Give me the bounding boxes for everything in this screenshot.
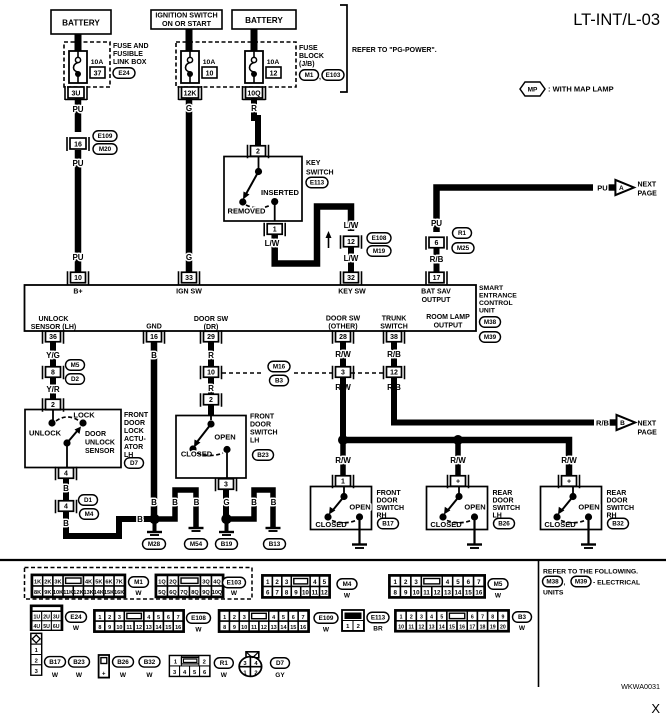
svg-text:10: 10 — [241, 625, 247, 631]
svg-text:W: W — [231, 590, 238, 597]
svg-text:14: 14 — [156, 625, 163, 631]
svg-text:M25: M25 — [457, 245, 470, 252]
svg-text:12K: 12K — [73, 590, 83, 596]
svg-text:PAGE: PAGE — [638, 430, 658, 437]
svg-text:ACTU-: ACTU- — [124, 436, 146, 443]
svg-text:38: 38 — [390, 334, 398, 341]
svg-text:B23: B23 — [73, 659, 85, 666]
svg-text:E108: E108 — [372, 235, 387, 242]
svg-text:OPEN: OPEN — [214, 433, 235, 442]
svg-text:10: 10 — [398, 624, 404, 630]
svg-text:PU: PU — [72, 105, 83, 114]
svg-text:LT-INT/L-03: LT-INT/L-03 — [573, 11, 660, 29]
svg-text:DOOR: DOOR — [377, 498, 398, 505]
svg-text:2: 2 — [51, 402, 55, 409]
svg-text:4: 4 — [64, 504, 68, 511]
svg-text:33: 33 — [185, 275, 193, 282]
svg-text:B32: B32 — [144, 659, 156, 666]
svg-text:D7: D7 — [276, 660, 285, 667]
svg-text:FRONT: FRONT — [124, 412, 149, 419]
svg-text:1: 1 — [266, 579, 270, 586]
svg-text:16K: 16K — [114, 590, 124, 596]
svg-text:M5: M5 — [71, 362, 80, 369]
svg-text:NEXT: NEXT — [638, 182, 657, 189]
svg-text:12: 12 — [347, 239, 355, 246]
svg-text:W: W — [120, 672, 127, 679]
svg-text:11: 11 — [251, 625, 257, 631]
svg-text:W: W — [76, 672, 83, 679]
svg-text:E103: E103 — [227, 580, 242, 587]
svg-text:28: 28 — [339, 334, 347, 341]
svg-text:KEY: KEY — [306, 160, 321, 167]
svg-text:UNLOCK: UNLOCK — [85, 440, 115, 447]
svg-text:FUSIBLE: FUSIBLE — [113, 51, 143, 58]
svg-text:2: 2 — [209, 397, 213, 404]
svg-text:B26: B26 — [498, 521, 510, 528]
svg-text:Y/R: Y/R — [46, 385, 60, 394]
svg-text:FUSE AND: FUSE AND — [113, 43, 149, 50]
svg-text:12: 12 — [434, 590, 441, 597]
svg-text:R: R — [208, 384, 214, 393]
svg-text:8: 8 — [98, 625, 101, 631]
svg-text:BLOCK: BLOCK — [299, 53, 324, 60]
svg-text:LOCK: LOCK — [73, 411, 95, 420]
svg-text:SWITCH: SWITCH — [250, 430, 278, 437]
svg-text:R/W: R/W — [561, 456, 577, 465]
svg-text:37: 37 — [94, 71, 102, 78]
svg-text:11: 11 — [126, 625, 132, 631]
svg-text:16: 16 — [459, 624, 465, 630]
svg-text:A: A — [619, 185, 624, 192]
svg-text:12: 12 — [136, 625, 142, 631]
svg-text:R/B: R/B — [430, 255, 444, 264]
svg-text:R1: R1 — [220, 660, 229, 667]
svg-text:B: B — [63, 519, 69, 528]
svg-text:10A: 10A — [267, 59, 280, 66]
svg-text:10: 10 — [302, 590, 309, 597]
svg-text:16: 16 — [175, 625, 181, 631]
svg-text:L/W: L/W — [344, 254, 359, 263]
svg-text:ROOM LAMP: ROOM LAMP — [426, 314, 470, 321]
svg-text:W: W — [135, 590, 142, 597]
svg-text:(OTHER): (OTHER) — [328, 324, 357, 331]
svg-text:B23: B23 — [257, 452, 269, 459]
svg-text:1: 1 — [393, 579, 397, 586]
svg-text:10: 10 — [206, 71, 214, 78]
svg-text:B19: B19 — [221, 541, 233, 548]
svg-text:D7: D7 — [130, 460, 139, 467]
svg-text:14: 14 — [439, 624, 445, 630]
svg-text:G: G — [223, 498, 229, 507]
svg-text:LH: LH — [250, 438, 259, 445]
svg-text:CLOSED: CLOSED — [544, 520, 576, 529]
svg-text:1Q: 1Q — [158, 580, 166, 586]
svg-text:9K: 9K — [44, 590, 51, 596]
svg-text:DOOR: DOOR — [493, 498, 514, 505]
svg-text:E24: E24 — [70, 614, 82, 621]
svg-text:12: 12 — [419, 624, 425, 630]
svg-text:2: 2 — [275, 579, 279, 586]
svg-text:B26: B26 — [117, 659, 129, 666]
svg-text:W: W — [221, 672, 228, 679]
svg-text:B: B — [620, 420, 625, 427]
svg-text:12K: 12K — [184, 90, 197, 97]
svg-text:8K: 8K — [34, 590, 41, 596]
svg-text:D2: D2 — [71, 376, 80, 383]
svg-text:R: R — [251, 104, 257, 113]
svg-text:8: 8 — [393, 590, 397, 597]
svg-text:R1: R1 — [458, 230, 467, 237]
svg-text:BAT SAV: BAT SAV — [421, 289, 451, 296]
svg-text:CONTROL: CONTROL — [479, 300, 513, 307]
svg-text:DOOR SW: DOOR SW — [194, 316, 229, 323]
svg-text:16: 16 — [150, 334, 158, 341]
svg-text:36: 36 — [49, 334, 57, 341]
svg-text:10: 10 — [116, 625, 122, 631]
svg-text:7: 7 — [275, 590, 279, 597]
svg-text:15: 15 — [290, 625, 296, 631]
svg-text:2: 2 — [357, 624, 360, 630]
svg-text:5Q: 5Q — [158, 590, 166, 596]
svg-text:3: 3 — [224, 482, 228, 489]
svg-text:14: 14 — [280, 625, 287, 631]
svg-text:M16: M16 — [273, 364, 286, 371]
svg-text:BATTERY: BATTERY — [245, 16, 283, 25]
svg-text:9: 9 — [404, 590, 408, 597]
svg-text:4Q: 4Q — [213, 580, 221, 586]
svg-text:9: 9 — [233, 625, 236, 631]
svg-text:8: 8 — [51, 370, 55, 377]
svg-text:E109: E109 — [319, 615, 334, 622]
svg-text:E24: E24 — [118, 70, 130, 77]
svg-text:3U: 3U — [72, 90, 81, 97]
svg-text:5: 5 — [282, 615, 285, 621]
svg-text:BR: BR — [373, 626, 383, 633]
svg-text:4: 4 — [430, 615, 433, 621]
svg-text:B: B — [172, 498, 178, 507]
svg-text:6: 6 — [266, 590, 270, 597]
svg-text:SWITCH: SWITCH — [493, 505, 521, 512]
svg-text:3: 3 — [414, 579, 418, 586]
svg-text:B3: B3 — [275, 378, 284, 385]
svg-text:13: 13 — [444, 590, 451, 597]
svg-text:OPEN: OPEN — [578, 503, 599, 512]
svg-text:11K: 11K — [63, 590, 73, 596]
svg-text:DOOR: DOOR — [250, 422, 271, 429]
svg-text:M39: M39 — [484, 334, 497, 341]
svg-text:FUSE: FUSE — [299, 45, 318, 52]
svg-text:+: + — [567, 479, 571, 486]
svg-text:DOOR SW: DOOR SW — [326, 316, 361, 323]
svg-text:B+: B+ — [73, 289, 82, 296]
svg-text:B: B — [251, 498, 257, 507]
svg-text:10A: 10A — [203, 59, 216, 66]
svg-text:CLOSED: CLOSED — [315, 520, 347, 529]
svg-text:INSERTED: INSERTED — [261, 188, 300, 197]
svg-text:2: 2 — [254, 671, 257, 677]
svg-text:11: 11 — [423, 590, 430, 597]
svg-text:B17: B17 — [49, 659, 61, 666]
svg-text:5: 5 — [440, 615, 443, 621]
svg-text:M28: M28 — [148, 541, 161, 548]
svg-text:OUTPUT: OUTPUT — [422, 297, 452, 304]
svg-text:SWITCH: SWITCH — [380, 324, 408, 331]
svg-text:E103: E103 — [326, 72, 341, 79]
svg-text:4U: 4U — [34, 624, 41, 630]
svg-text:8: 8 — [285, 590, 289, 597]
svg-text:9: 9 — [108, 625, 111, 631]
svg-text:4: 4 — [313, 579, 317, 586]
svg-text:M38: M38 — [484, 319, 497, 326]
svg-text:9Q: 9Q — [202, 590, 210, 596]
svg-text:1K: 1K — [34, 580, 41, 586]
svg-text:2: 2 — [410, 615, 413, 621]
svg-text:6: 6 — [471, 615, 474, 621]
svg-text:9: 9 — [294, 590, 298, 597]
svg-text:,: , — [564, 580, 566, 587]
svg-text:CLOSED: CLOSED — [430, 520, 462, 529]
svg-text:SMART: SMART — [479, 285, 504, 292]
svg-text:L/W: L/W — [344, 221, 359, 230]
svg-text:32: 32 — [347, 275, 355, 282]
svg-text:5: 5 — [456, 579, 460, 586]
svg-text:SWITCH: SWITCH — [306, 170, 334, 177]
svg-text:6U: 6U — [53, 624, 60, 630]
svg-text:7: 7 — [477, 579, 481, 586]
svg-text:15K: 15K — [104, 590, 114, 596]
svg-text:4K: 4K — [85, 580, 92, 586]
svg-text:GND: GND — [146, 324, 162, 331]
svg-text:- ELECTRICAL: - ELECTRICAL — [593, 580, 640, 587]
svg-text:DOOR: DOOR — [124, 420, 145, 427]
svg-text:OUTPUT: OUTPUT — [434, 323, 464, 330]
svg-text:SWITCH: SWITCH — [607, 505, 635, 512]
svg-text:R/W: R/W — [450, 456, 466, 465]
svg-text:12: 12 — [390, 370, 398, 377]
svg-text:PU: PU — [72, 159, 83, 168]
svg-text:2: 2 — [233, 615, 236, 621]
svg-text:13: 13 — [429, 624, 435, 630]
svg-text:19: 19 — [490, 624, 496, 630]
svg-text:PAGE: PAGE — [638, 191, 658, 198]
svg-text:ENTRANCE: ENTRANCE — [479, 293, 517, 300]
svg-text:+: + — [456, 479, 460, 486]
svg-text:G: G — [186, 104, 192, 113]
svg-text:REMOVED: REMOVED — [228, 207, 267, 216]
svg-text:DOOR: DOOR — [85, 431, 106, 438]
svg-text:SENSOR (LH): SENSOR (LH) — [31, 324, 77, 331]
svg-text:B: B — [63, 484, 69, 493]
svg-text:12: 12 — [321, 590, 328, 597]
svg-text:SENSOR: SENSOR — [85, 448, 115, 455]
svg-text:CLOSED: CLOSED — [181, 450, 213, 459]
svg-text:6K: 6K — [105, 580, 112, 586]
svg-text:2: 2 — [256, 149, 260, 156]
svg-text:2Q: 2Q — [169, 580, 177, 586]
svg-text:14: 14 — [454, 590, 461, 597]
svg-text:4: 4 — [64, 471, 68, 478]
svg-text:3: 3 — [243, 615, 246, 621]
svg-text:3K: 3K — [54, 580, 61, 586]
svg-text:M54: M54 — [190, 541, 203, 548]
svg-text:1: 1 — [273, 227, 277, 234]
svg-text:X: X — [651, 701, 660, 716]
svg-text:6: 6 — [467, 579, 471, 586]
svg-text:15: 15 — [165, 625, 171, 631]
svg-text:7K: 7K — [116, 580, 123, 586]
svg-text:UNIT: UNIT — [479, 308, 496, 315]
svg-text:9: 9 — [501, 615, 504, 621]
svg-text:LINK BOX: LINK BOX — [113, 59, 147, 66]
svg-text:8: 8 — [223, 625, 226, 631]
svg-text:5: 5 — [157, 615, 160, 621]
svg-text:12: 12 — [261, 625, 267, 631]
svg-text:UNITS: UNITS — [543, 590, 564, 597]
svg-text:PU: PU — [597, 184, 607, 193]
svg-text:B32: B32 — [612, 521, 624, 528]
svg-text:(DR): (DR) — [204, 324, 219, 331]
svg-text:2: 2 — [35, 659, 38, 665]
svg-text:10: 10 — [413, 590, 420, 597]
svg-text:M5: M5 — [494, 581, 503, 588]
svg-text:16: 16 — [300, 625, 306, 631]
svg-text:,: , — [319, 74, 321, 81]
svg-text:6: 6 — [435, 240, 439, 247]
svg-text:3: 3 — [118, 615, 121, 621]
svg-text:KEY SW: KEY SW — [338, 289, 366, 296]
svg-text:REFER TO "PG-POWER".: REFER TO "PG-POWER". — [352, 47, 437, 54]
svg-text:G: G — [186, 253, 192, 262]
svg-text:W: W — [519, 625, 526, 632]
svg-text:B3: B3 — [518, 614, 527, 621]
svg-text:E108: E108 — [191, 615, 206, 622]
svg-text:3U: 3U — [53, 615, 60, 621]
svg-text:R/B: R/B — [387, 350, 401, 359]
svg-text:M1: M1 — [134, 579, 143, 586]
svg-text:3: 3 — [420, 615, 423, 621]
svg-text:10: 10 — [207, 370, 215, 377]
svg-text:7Q: 7Q — [180, 590, 188, 596]
svg-text:10K: 10K — [53, 590, 63, 596]
svg-text:1: 1 — [400, 615, 403, 621]
svg-text:OPEN: OPEN — [464, 503, 485, 512]
svg-text:NEXT: NEXT — [638, 421, 657, 428]
svg-text:B: B — [137, 515, 143, 524]
svg-text:E113: E113 — [310, 180, 325, 187]
svg-text:REAR: REAR — [493, 490, 513, 497]
svg-text:E113: E113 — [371, 615, 386, 622]
svg-text:SWITCH: SWITCH — [377, 505, 405, 512]
svg-text:13K: 13K — [83, 590, 93, 596]
svg-text:13: 13 — [271, 625, 277, 631]
svg-text:B: B — [271, 498, 277, 507]
svg-text:UNLOCK: UNLOCK — [39, 316, 69, 323]
svg-text:GY: GY — [275, 672, 285, 679]
svg-text:W: W — [495, 593, 502, 600]
svg-text:B17: B17 — [382, 521, 394, 528]
svg-text:2U: 2U — [43, 615, 50, 621]
svg-text:Y/G: Y/G — [46, 351, 60, 360]
svg-text:B: B — [151, 351, 157, 360]
svg-text:1U: 1U — [34, 615, 41, 621]
svg-text:W: W — [344, 593, 351, 600]
svg-text:MP: MP — [528, 87, 538, 94]
svg-text:M1: M1 — [305, 72, 314, 79]
svg-text:10: 10 — [74, 275, 82, 282]
svg-text:3Q: 3Q — [202, 580, 210, 586]
svg-text:2: 2 — [108, 615, 111, 621]
svg-text:3: 3 — [341, 370, 345, 377]
svg-text:PU: PU — [431, 219, 442, 228]
svg-text:20: 20 — [500, 624, 506, 630]
svg-text:UNLOCK: UNLOCK — [29, 429, 62, 438]
svg-text:15: 15 — [465, 590, 472, 597]
svg-text:7: 7 — [481, 615, 484, 621]
svg-text:2: 2 — [203, 660, 206, 666]
svg-text:16: 16 — [475, 590, 482, 597]
svg-text:13: 13 — [146, 625, 152, 631]
svg-text:D1: D1 — [84, 497, 93, 504]
svg-text:B13: B13 — [269, 541, 281, 548]
svg-text:5K: 5K — [95, 580, 102, 586]
svg-text:E109: E109 — [98, 133, 113, 140]
svg-text:7: 7 — [177, 615, 180, 621]
svg-text:17: 17 — [469, 624, 475, 630]
svg-text:ATOR: ATOR — [124, 444, 143, 451]
svg-text:WKWA0031: WKWA0031 — [621, 682, 660, 691]
svg-text:+: + — [102, 672, 106, 678]
svg-text:1: 1 — [223, 615, 226, 621]
svg-text:1: 1 — [98, 615, 101, 621]
svg-text:REAR: REAR — [607, 490, 627, 497]
svg-text:W: W — [195, 627, 202, 634]
svg-text:6: 6 — [167, 615, 170, 621]
svg-text:OPEN: OPEN — [349, 503, 370, 512]
svg-text:TRUNK: TRUNK — [382, 316, 407, 323]
svg-text:REFER TO THE FOLLOWING.: REFER TO THE FOLLOWING. — [543, 569, 638, 576]
svg-text:L/W: L/W — [265, 239, 280, 248]
svg-text:ON OR START: ON OR START — [162, 19, 212, 28]
svg-text:18: 18 — [480, 624, 486, 630]
svg-text:1: 1 — [341, 479, 345, 486]
svg-text:M4: M4 — [85, 511, 94, 518]
svg-text:16: 16 — [74, 141, 82, 148]
svg-text:R: R — [208, 351, 214, 360]
svg-text:PU: PU — [72, 253, 83, 262]
svg-text:7: 7 — [302, 615, 305, 621]
svg-text:DOOR: DOOR — [607, 498, 628, 505]
svg-text:15: 15 — [449, 624, 455, 630]
svg-text:M4: M4 — [343, 581, 352, 588]
svg-text:M19: M19 — [373, 248, 386, 255]
svg-text:29: 29 — [207, 334, 215, 341]
svg-text:10Q: 10Q — [212, 590, 223, 596]
svg-text:B: B — [151, 498, 157, 507]
svg-text:5U: 5U — [43, 624, 50, 630]
svg-text:M39: M39 — [575, 579, 588, 586]
svg-text:W: W — [146, 672, 153, 679]
svg-text:6Q: 6Q — [169, 590, 177, 596]
svg-text:(J/B): (J/B) — [299, 61, 315, 68]
svg-text:FRONT: FRONT — [377, 490, 402, 497]
svg-text:R/B: R/B — [596, 419, 610, 428]
svg-text:2: 2 — [404, 579, 408, 586]
svg-text:4: 4 — [446, 579, 450, 586]
svg-text:FRONT: FRONT — [250, 414, 275, 421]
svg-text:M20: M20 — [99, 146, 112, 153]
svg-text:W: W — [73, 625, 80, 632]
svg-text:14K: 14K — [94, 590, 104, 596]
